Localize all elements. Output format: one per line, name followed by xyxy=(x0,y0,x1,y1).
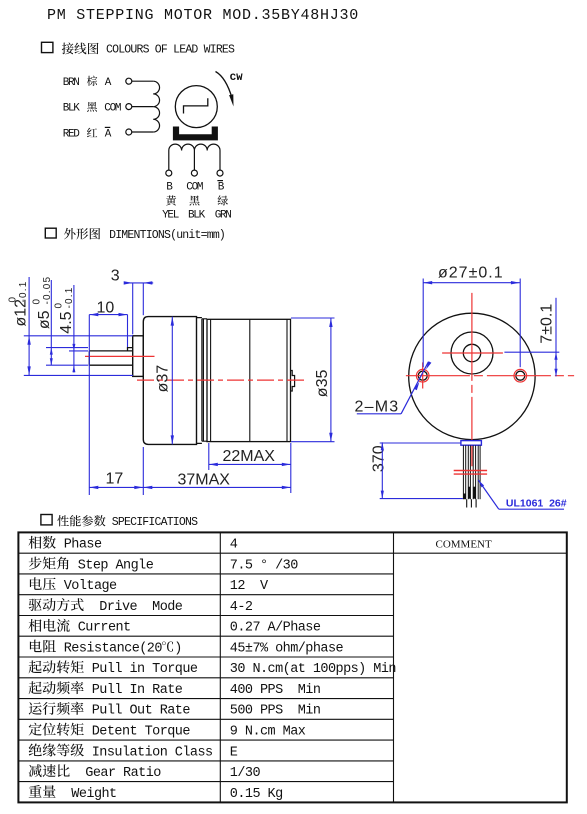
boss top extension xyxy=(24,335,133,337)
svg-text:0-0.1: 0-0.1 xyxy=(7,280,29,302)
svg-text:37MAX: 37MAX xyxy=(178,471,231,488)
svg-text:PM STEPPING MOTOR MOD.35BY48HJ: PM STEPPING MOTOR MOD.35BY48HJ30 xyxy=(47,7,359,24)
terminal COM (bottom) xyxy=(191,170,197,176)
table row 12: Gear Ratio xyxy=(29,764,261,781)
wire coil B left leg xyxy=(168,151,170,171)
body centerline (red) xyxy=(137,379,308,381)
svg-text:Insulation Class: Insulation Class xyxy=(84,745,212,760)
dimension Ø35 line xyxy=(330,318,332,442)
svg-text:A: A xyxy=(105,129,112,141)
svg-text:Current: Current xyxy=(70,621,130,636)
dimension 3 lines xyxy=(125,282,153,284)
table row 4: Drive Mode xyxy=(29,598,253,615)
cable clamp xyxy=(461,441,482,446)
svg-text:BLK: BLK xyxy=(188,210,206,222)
extension line at shaft tip xyxy=(88,315,90,495)
shaft centerline (red) xyxy=(85,355,155,357)
svg-text:): ) xyxy=(174,641,182,656)
svg-text:4: 4 xyxy=(230,538,238,553)
label 黑 (bottom) xyxy=(189,196,199,206)
dimension 22MAX line xyxy=(209,463,291,465)
svg-text:B: B xyxy=(166,182,173,194)
checkbox heading 1 xyxy=(42,42,53,52)
370 top extension xyxy=(380,442,461,444)
svg-text:500 PPS Min: 500 PPS Min xyxy=(230,704,321,719)
motor face outline (front view) xyxy=(409,313,535,439)
table row 1: Phase xyxy=(29,536,238,553)
svg-text:Step Angle: Step Angle xyxy=(70,558,154,573)
front boss (side view) xyxy=(133,336,144,377)
svg-text:4-2: 4-2 xyxy=(230,600,253,615)
terminal B xyxy=(166,170,172,176)
svg-text:0-0.05: 0-0.05 xyxy=(31,276,53,305)
svg-text:Weight: Weight xyxy=(56,787,116,802)
table row 8: Pull In Rate xyxy=(29,681,321,698)
svg-text:SPECIFICATIONS: SPECIFICATIONS xyxy=(112,516,198,529)
dimension 7±0.1 line xyxy=(555,298,557,377)
table row 2: Step Angle xyxy=(29,557,298,574)
table row 6: Resistance(20℃) xyxy=(30,640,344,657)
rear shaft bump xyxy=(291,371,295,392)
terminal B-bar xyxy=(217,170,223,176)
svg-text:ø35: ø35 xyxy=(314,370,331,398)
svg-text:COMMENT: COMMENT xyxy=(436,538,493,550)
svg-text:Pull In Rate: Pull In Rate xyxy=(84,683,183,698)
svg-text:0.15 Kg: 0.15 Kg xyxy=(230,787,283,802)
svg-text:Resistance(20: Resistance(20 xyxy=(56,641,162,656)
svg-text:COM: COM xyxy=(186,182,203,194)
extension line at body right xyxy=(290,443,292,493)
svg-text:BRN: BRN xyxy=(63,77,80,89)
terminal COM (left) xyxy=(126,104,132,110)
dimension Ø37 line xyxy=(171,317,173,445)
svg-text:COM: COM xyxy=(104,103,121,115)
rotor U1 (stepper rotor circle) xyxy=(175,86,217,128)
svg-text:DIMENTIONS(unit=mm): DIMENTIONS(unit=mm) xyxy=(109,229,225,242)
wire COM to coil xyxy=(132,106,153,108)
checkbox heading 3 xyxy=(41,515,52,525)
terminal A xyxy=(126,78,132,84)
svg-text:45±7% ohm/phase: 45±7% ohm/phase xyxy=(230,641,344,656)
dimension Ø12 line xyxy=(28,277,30,375)
heading 外形图 xyxy=(64,228,100,240)
svg-text:3: 3 xyxy=(111,268,120,285)
dimension 370 line xyxy=(381,442,383,498)
svg-text:Phase: Phase xyxy=(56,538,102,553)
boss bottom extension xyxy=(24,374,133,376)
shaft circle xyxy=(463,344,480,361)
motor gearbox cap (side view) xyxy=(143,317,196,445)
table column divider 1 xyxy=(219,532,221,802)
dimension 4.5 line xyxy=(73,285,75,373)
heading 接线图 xyxy=(62,43,99,55)
wire A to coil xyxy=(132,80,153,82)
shaft centerline horizontal (red) xyxy=(442,352,503,354)
svg-text:9 N.cm Max: 9 N.cm Max xyxy=(230,725,306,740)
svg-text:10: 10 xyxy=(97,300,115,317)
svg-text:22MAX: 22MAX xyxy=(223,448,276,465)
svg-text:B: B xyxy=(218,182,225,194)
CW arrowhead xyxy=(229,94,233,106)
2-M3 leader underline xyxy=(357,413,401,415)
shaft top extension xyxy=(46,347,88,349)
svg-text:7±0.1: 7±0.1 xyxy=(539,304,556,344)
wire dark insulation segments xyxy=(468,487,470,499)
svg-text:GRN: GRN xyxy=(215,210,232,222)
svg-text:2–M3: 2–M3 xyxy=(355,398,400,415)
mounting hole right (M3) xyxy=(516,371,525,380)
shaft center extension (blue) xyxy=(504,351,559,353)
svg-text:YEL: YEL xyxy=(162,210,179,222)
Ø27 extension line right xyxy=(519,279,521,368)
label 黄 xyxy=(166,195,176,205)
wire coil B middle leg xyxy=(193,151,195,171)
svg-text:E: E xyxy=(230,745,238,760)
table outer border xyxy=(18,532,566,802)
red binding bars xyxy=(454,470,487,472)
table row 11: Insulation Class xyxy=(29,743,238,760)
svg-text:12 V: 12 V xyxy=(230,579,269,594)
svg-text:Drive Mode: Drive Mode xyxy=(84,600,183,615)
svg-text:UL1061 26#: UL1061 26# xyxy=(506,498,567,510)
table column divider 2 xyxy=(393,532,395,802)
checkbox heading 2 xyxy=(45,228,56,238)
hole centerline horizontal (red) xyxy=(406,375,574,377)
wire A-bar to coil xyxy=(132,131,153,133)
svg-text:17: 17 xyxy=(106,470,124,487)
UL1061 leader xyxy=(499,508,564,510)
table row 5: Current xyxy=(29,619,321,636)
svg-text:1/30: 1/30 xyxy=(230,766,261,781)
gearbox cap neck xyxy=(197,318,202,444)
table row dividers xyxy=(18,553,566,781)
svg-text:30 N.cm(at 100pps) Min: 30 N.cm(at 100pps) Min xyxy=(230,662,396,677)
shaft bottom extension xyxy=(46,364,88,366)
2-M3 leader diagonal xyxy=(401,362,428,414)
table row 3: Voltage xyxy=(30,577,269,594)
lead wires bundle xyxy=(463,445,480,499)
svg-text:Pull Out Rate: Pull Out Rate xyxy=(84,704,190,719)
dimension 17/37MAX line xyxy=(89,486,290,488)
output shaft (side view) xyxy=(89,348,132,366)
370 bottom extension xyxy=(380,498,463,500)
svg-text:370: 370 xyxy=(370,445,387,472)
svg-text:ø5: ø5 xyxy=(36,310,53,329)
svg-text:4.5: 4.5 xyxy=(58,311,75,333)
mounting hole left (M3) xyxy=(418,371,427,380)
svg-text:COLOURS OF LEAD WIRES: COLOURS OF LEAD WIRES xyxy=(106,44,235,57)
svg-text:0-0.1: 0-0.1 xyxy=(53,286,75,308)
dimension Ø35 extension lines xyxy=(291,317,335,319)
stator bracket xyxy=(173,127,218,141)
coil B (phase winding, 4 bumps) xyxy=(169,144,220,150)
extension line at body left xyxy=(208,443,210,470)
svg-text:400 PPS Min: 400 PPS Min xyxy=(230,683,321,698)
vertical centerline (red) xyxy=(471,293,473,466)
Ø27 extension line left xyxy=(422,279,424,368)
label 绿 xyxy=(218,195,228,205)
wire coil B right leg xyxy=(219,151,221,171)
step waveform symbol inside rotor xyxy=(184,98,208,113)
CW rotation arc xyxy=(216,72,233,99)
wire tails xyxy=(466,499,468,507)
svg-text:A: A xyxy=(105,77,112,89)
table row 13: Weight xyxy=(29,785,283,802)
svg-text:Pull in Torque: Pull in Torque xyxy=(84,662,198,677)
svg-text:Voltage: Voltage xyxy=(56,579,117,594)
body seam lines xyxy=(210,319,212,441)
motor body cylinder (side view) xyxy=(207,319,291,441)
coil A (phase winding, 4 bumps) xyxy=(153,81,159,132)
dimension Ø27 line xyxy=(423,282,520,284)
dimension 10 line xyxy=(89,314,127,316)
front boss circle xyxy=(451,332,493,374)
terminal A-bar xyxy=(126,129,132,135)
dimension Ø5 line xyxy=(50,280,52,366)
svg-text:Gear Ratio: Gear Ratio xyxy=(70,766,161,781)
svg-text:Detent Torque: Detent Torque xyxy=(84,725,190,740)
svg-text:0.27 A/Phase: 0.27 A/Phase xyxy=(230,621,321,636)
extension line below cap face xyxy=(142,447,144,495)
table row 7: Pull in Torque xyxy=(29,660,396,677)
heading 性能参数 xyxy=(57,515,105,526)
svg-text:ø37: ø37 xyxy=(155,365,172,393)
flat top extension xyxy=(69,350,88,352)
svg-text:BLK: BLK xyxy=(63,103,81,115)
table row 10: Detent Torque xyxy=(29,723,306,740)
table row 9: Pull Out Rate xyxy=(29,702,321,719)
svg-text:RED: RED xyxy=(63,129,81,141)
flange ring xyxy=(201,319,203,441)
svg-text:CW: CW xyxy=(230,72,244,84)
left hole vertical tick (red) xyxy=(422,362,424,388)
svg-text:ø27±0.1: ø27±0.1 xyxy=(438,264,504,281)
svg-text:7.5 ° /30: 7.5 ° /30 xyxy=(230,558,298,573)
